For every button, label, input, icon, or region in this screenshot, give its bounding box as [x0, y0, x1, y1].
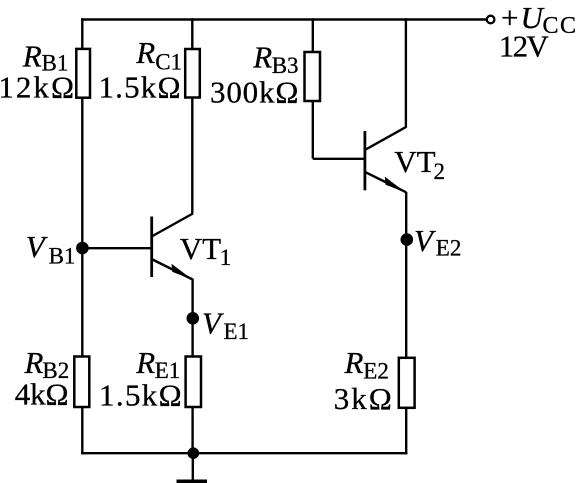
- ground stub wire: [192, 453, 194, 479]
- VT1 base bar: [150, 217, 153, 278]
- wire top power rail: [81, 18, 486, 20]
- svg-text:R: R: [252, 40, 272, 75]
- svg-text:12V: 12V: [499, 29, 550, 64]
- VT1 emitter arrowhead: [172, 264, 193, 280]
- svg-text:1: 1: [220, 245, 232, 270]
- node VE2 dot: [401, 233, 414, 246]
- svg-text:1.5kΩ: 1.5kΩ: [99, 378, 182, 413]
- node VB1 dot: [76, 242, 89, 255]
- svg-text:VT: VT: [394, 144, 435, 179]
- svg-text:R: R: [135, 345, 155, 380]
- resistor RE1: [99, 345, 201, 413]
- label VE1: [202, 305, 249, 344]
- node VE1 dot: [187, 312, 200, 325]
- svg-text:4kΩ: 4kΩ: [15, 377, 69, 412]
- label VE2: [414, 223, 461, 260]
- wire VT2 base horizontal: [313, 158, 365, 160]
- svg-text:V: V: [202, 305, 224, 340]
- svg-text:R: R: [344, 345, 364, 380]
- wire third branch vertical (RB3): [312, 18, 314, 159]
- svg-text:R: R: [135, 35, 155, 70]
- svg-text:2: 2: [434, 159, 446, 184]
- VT2 emitter diagonal: [366, 172, 407, 192]
- ground: [177, 453, 208, 483]
- terminal +UCC open circle: [487, 16, 495, 24]
- label VT1: [180, 231, 232, 270]
- svg-text:VT: VT: [180, 231, 221, 266]
- label VT2: [394, 144, 445, 184]
- resistor RB2: [15, 345, 90, 412]
- ground bar: [177, 480, 208, 483]
- svg-text:E2: E2: [363, 358, 389, 383]
- resistor RB3: [210, 40, 320, 110]
- transistor VT1: [152, 214, 193, 280]
- svg-text:V: V: [414, 223, 436, 258]
- svg-text:12kΩ: 12kΩ: [0, 70, 74, 105]
- wire VT2 emitter vertical down: [405, 192, 407, 454]
- svg-text:R: R: [24, 345, 44, 380]
- transistor VT2: [365, 127, 407, 193]
- svg-text:1.5kΩ: 1.5kΩ: [99, 70, 181, 105]
- VT1 emitter diagonal: [153, 260, 193, 280]
- label VB1: [26, 229, 76, 269]
- VT2 collector diagonal: [366, 127, 407, 150]
- svg-text:R: R: [22, 39, 42, 74]
- svg-text:3kΩ: 3kΩ: [334, 381, 392, 416]
- svg-text:B1: B1: [49, 244, 76, 269]
- wire second branch vertical (RC1 / VT1 collector top): [191, 18, 193, 214]
- VT2 base bar: [363, 131, 366, 190]
- svg-text:300kΩ: 300kΩ: [210, 74, 298, 109]
- resistor RE2: [334, 345, 415, 416]
- label +UCC: [501, 0, 576, 39]
- svg-text:E2: E2: [436, 235, 462, 260]
- wire VT1 base horizontal: [82, 247, 151, 249]
- VT2 emitter arrowhead: [385, 177, 406, 193]
- resistor RB1: [0, 39, 90, 105]
- svg-text:V: V: [26, 229, 48, 264]
- wire left branch vertical: [81, 18, 83, 454]
- node ground junction dot: [188, 447, 200, 459]
- wire fourth branch vertical (VT2 collector top): [405, 18, 407, 127]
- svg-text:E1: E1: [224, 319, 250, 344]
- wire bottom rail: [81, 452, 407, 454]
- resistor RC1: [99, 35, 200, 104]
- VT1 collector diagonal: [153, 214, 193, 237]
- wire VT1 emitter vertical down: [191, 279, 193, 455]
